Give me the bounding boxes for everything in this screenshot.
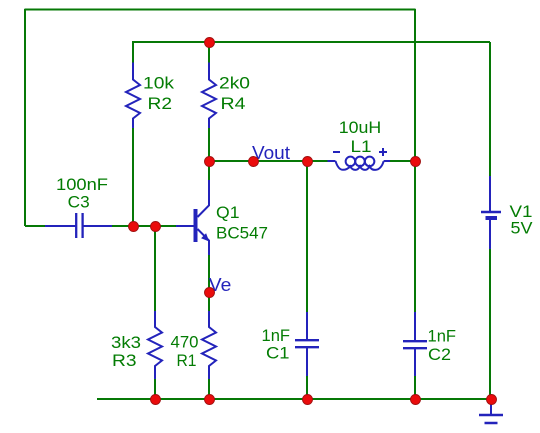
wire C1 branch lower — [306, 375, 308, 399]
svg-text:C2: C2 — [428, 345, 451, 364]
wire supply top rail — [133, 41, 490, 43]
wire R3 lower lead to bottom rail — [154, 378, 156, 399]
wire R4 branch upper — [208, 42, 210, 63]
wire collector stub (Vout node down to Q1) — [208, 161, 210, 181]
junction L1 right / feedback — [411, 157, 421, 167]
wire R3 branch upper (base rail down to R3) — [154, 226, 156, 313]
svg-text:3k3: 3k3 — [111, 333, 141, 352]
resistor R4 — [202, 63, 216, 129]
ground — [479, 401, 503, 423]
transistor Q1 base bar — [194, 209, 198, 242]
wire V1 branch upper — [489, 42, 491, 177]
svg-text:L1: L1 — [351, 137, 372, 156]
wire C2 branch (x=415, L1 node down to capacitor) — [414, 161, 416, 313]
wire outer top rail (feedback loop) — [25, 9, 415, 11]
capacitor C3 — [45, 213, 112, 238]
capacitor C1 — [295, 312, 319, 376]
svg-text:1nF: 1nF — [428, 327, 457, 346]
svg-text:R3: R3 — [112, 351, 137, 370]
junction supply rail / R4 — [205, 38, 215, 48]
L1 minus polarity mark — [333, 151, 340, 153]
wire C1 branch upper (Vout rail down to C1) — [306, 161, 308, 313]
svg-text:C1: C1 — [266, 344, 290, 363]
wire bottom ground rail — [97, 398, 491, 400]
svg-text:10k: 10k — [143, 74, 175, 93]
svg-text:100nF: 100nF — [56, 175, 108, 194]
inductor L1 — [328, 157, 391, 170]
junction ground — [487, 395, 497, 405]
svg-text:2k0: 2k0 — [219, 74, 250, 93]
svg-text:470: 470 — [171, 333, 199, 352]
svg-text:1nF: 1nF — [262, 326, 291, 345]
transistor Q1 base lead — [176, 225, 194, 227]
junction R3 top — [151, 222, 161, 232]
resistor R2 — [126, 63, 140, 129]
wire L1 right lead to feedback node — [389, 160, 415, 162]
junction Vout label point — [249, 157, 259, 167]
voltage source V1 battery — [481, 176, 501, 249]
svg-text:Q1: Q1 — [216, 203, 240, 222]
wire Vout rail (collector node to L1 left) — [209, 160, 328, 162]
junction C1 bottom — [303, 395, 313, 405]
svg-text:R1: R1 — [177, 351, 197, 370]
junction R1 bottom — [205, 395, 215, 405]
svg-text:R4: R4 — [221, 94, 246, 113]
wire emitter to Ve node and R1 — [208, 255, 210, 313]
resistor R1 — [202, 311, 216, 379]
wire R4 branch lower (to Vout rail) — [208, 128, 210, 162]
junction C2 bottom — [411, 395, 421, 405]
junction Ve node — [205, 288, 215, 298]
wire R1 lower lead to bottom rail — [208, 378, 210, 399]
wire input rail (C3 to base) left part — [25, 225, 46, 227]
capacitor C2 — [403, 312, 427, 376]
svg-text:5V: 5V — [511, 219, 534, 238]
L1 plus polarity mark — [379, 148, 387, 156]
svg-text:10uH: 10uH — [339, 118, 382, 137]
wire V1 branch lower — [489, 248, 491, 399]
junction Vout at collector — [205, 157, 215, 167]
wire input rail C3 to base — [112, 225, 176, 227]
junction C1 top — [303, 157, 313, 167]
transistor Q1 emitter arrowhead — [201, 233, 209, 241]
svg-text:R2: R2 — [148, 94, 173, 113]
wire R2 branch upper — [132, 41, 134, 63]
transistor Q1 emitter lead with arrow — [198, 229, 210, 255]
wire R2 branch lower (to base rail) — [132, 128, 134, 227]
wire right feedback vertical upper (x=415, top to L1 node) — [414, 9, 416, 161]
svg-text:BC547: BC547 — [216, 224, 268, 243]
junction R3 bottom — [151, 395, 161, 405]
transistor Q1 collector lead — [198, 180, 210, 217]
wire C2 branch lower (capacitor to bottom rail) — [414, 375, 416, 399]
resistor R3 — [148, 311, 162, 379]
wire outer left vertical — [24, 9, 26, 226]
svg-text:C3: C3 — [68, 193, 90, 212]
junction C3 out / R2 bottom — [129, 222, 139, 232]
